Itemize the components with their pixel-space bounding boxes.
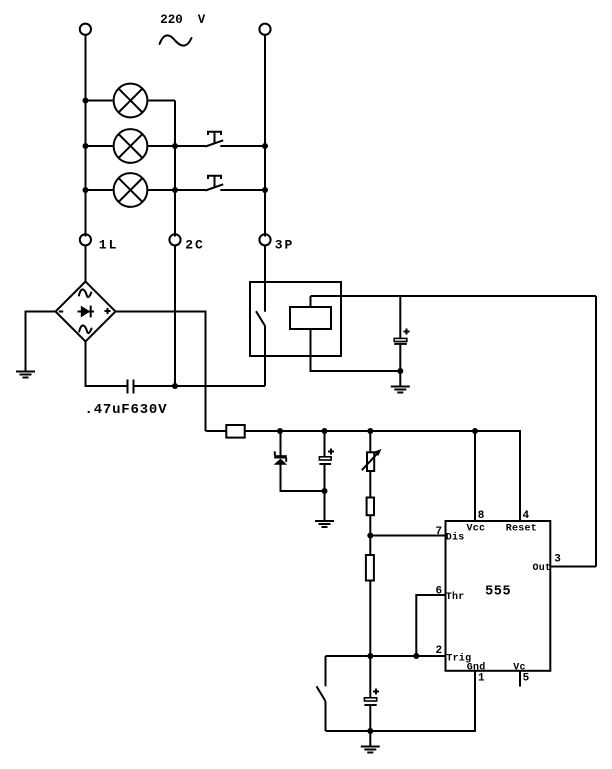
ground timing cap (361, 731, 380, 753)
relay coil box (290, 307, 331, 329)
wire lamp L3 left (86, 189, 113, 191)
ground zener/cap (315, 491, 334, 527)
wire pin 8 drop (474, 431, 476, 521)
svg-text:.47uF630V: .47uF630V (85, 402, 168, 418)
svg-text:Out: Out (533, 563, 552, 574)
wire pin 5 stub (519, 671, 521, 687)
wire S2 right (220, 189, 265, 191)
wire bridge plus to rail elbow (116, 312, 206, 432)
pin 6 Thr (436, 585, 465, 603)
wire coil top stub (310, 296, 312, 307)
wire 2C down to cap row (174, 246, 176, 386)
svg-text:8: 8 (478, 510, 485, 522)
ground relay cap (391, 371, 410, 393)
wire S1 right (220, 145, 265, 147)
terminal top-right (259, 24, 270, 35)
label 555 (485, 585, 511, 600)
wire right vertical bus x=265 (264, 34, 266, 236)
svg-text:6: 6 (436, 585, 443, 597)
terminal 1L (80, 234, 119, 252)
pin 3 Out (533, 554, 562, 575)
junction dot timing cap (367, 728, 373, 734)
wire lamp L2 left (86, 145, 113, 147)
wire lamp L1 left (86, 100, 113, 102)
bridge rectifier BR1 (56, 282, 116, 342)
pin 5 Vc (513, 663, 529, 685)
relay contact blade (256, 311, 265, 326)
svg-text:2C: 2C (185, 238, 205, 253)
wire coil bottom to cap junction (311, 329, 401, 371)
relay K1 outer box (250, 282, 341, 356)
net label 220 V (160, 13, 206, 27)
junction dots main rail (277, 428, 478, 434)
wire 3P down to relay switch (264, 246, 266, 312)
junction dot coil/cap (397, 368, 403, 374)
AC source tilde symbol (160, 35, 192, 45)
svg-text:555: 555 (485, 585, 511, 600)
wire Thr to chip (416, 595, 445, 656)
terminal 3P (259, 234, 294, 252)
svg-text:Reset: Reset (506, 524, 537, 535)
terminal top-left (80, 24, 91, 35)
resistor R3 (366, 555, 374, 656)
svg-text:3P: 3P (275, 238, 295, 253)
switch S3 trigger (317, 656, 326, 731)
resistor R1 series (206, 425, 245, 438)
pin 2 Trig (436, 645, 472, 664)
svg-text:Thr: Thr (446, 591, 465, 603)
capacitor C1 .47uF630V (128, 380, 134, 394)
svg-text:Gnd: Gnd (467, 662, 486, 674)
wire main rail y=431 (245, 431, 520, 521)
wire bottom row to pin 1 (326, 671, 476, 731)
lamp L3 (114, 173, 148, 207)
svg-text:7: 7 (436, 526, 443, 538)
wire bridge bottom to cap row (86, 342, 127, 387)
pin 7 Dis (436, 526, 465, 544)
junction dot Dis node (367, 533, 373, 539)
capacitor C4 timing (364, 656, 379, 731)
resistor R2 (367, 498, 374, 556)
junction dot 2C cap row (172, 383, 178, 389)
svg-text:1: 1 (478, 672, 485, 684)
wire 1L to bridge (85, 246, 87, 282)
svg-text:4: 4 (523, 510, 530, 522)
svg-text:5: 5 (523, 672, 530, 684)
wire cap row to 3P column (135, 385, 266, 387)
wire top rail to output column (311, 295, 597, 297)
wire lamp L2 right (148, 145, 205, 147)
pin 8 Vcc (467, 510, 486, 535)
capacitor C3 filter (319, 431, 334, 491)
IC U1 555 timer body (446, 521, 551, 671)
svg-text:1L: 1L (99, 238, 119, 253)
terminal 2C (169, 234, 204, 252)
wire Trig row (326, 655, 446, 657)
svg-text:Vcc: Vcc (467, 524, 486, 535)
wire relay contact lower to cap row (264, 326, 266, 386)
junction dot zener/cap (322, 488, 328, 494)
pushbutton switch S1 (206, 132, 224, 147)
wire left vertical bus x=85.5 (85, 34, 87, 236)
svg-text:3: 3 (554, 554, 561, 566)
label .47uF630V (85, 402, 168, 418)
pin 1 Gnd (467, 662, 486, 685)
svg-text:220 V: 220 V (160, 13, 206, 27)
wire Dis to chip (370, 535, 445, 537)
potentiometer VR1 (362, 431, 382, 498)
wire bridge minus to ground (26, 312, 56, 372)
wire lamp L1 right to mid bus corner (148, 100, 175, 102)
ground bridge minus (16, 372, 35, 378)
wire middle vertical bus x=175 (174, 101, 176, 237)
junction dots lamp rows (83, 98, 269, 194)
wire pin 3 Out stub (550, 566, 596, 568)
svg-text:2: 2 (436, 645, 443, 657)
wire lamp L3 right (148, 189, 205, 191)
junction dots Trig row (367, 653, 419, 659)
pushbutton switch S2 (206, 176, 224, 191)
lamp L2 (114, 129, 148, 163)
pin 4 Reset (506, 510, 537, 535)
capacitor C2 relay filter (394, 296, 409, 371)
lamp L1 (114, 84, 148, 118)
wire output column down to pin 3 (595, 296, 597, 567)
zener diode D1 (274, 431, 325, 491)
svg-text:Dis: Dis (446, 531, 465, 543)
